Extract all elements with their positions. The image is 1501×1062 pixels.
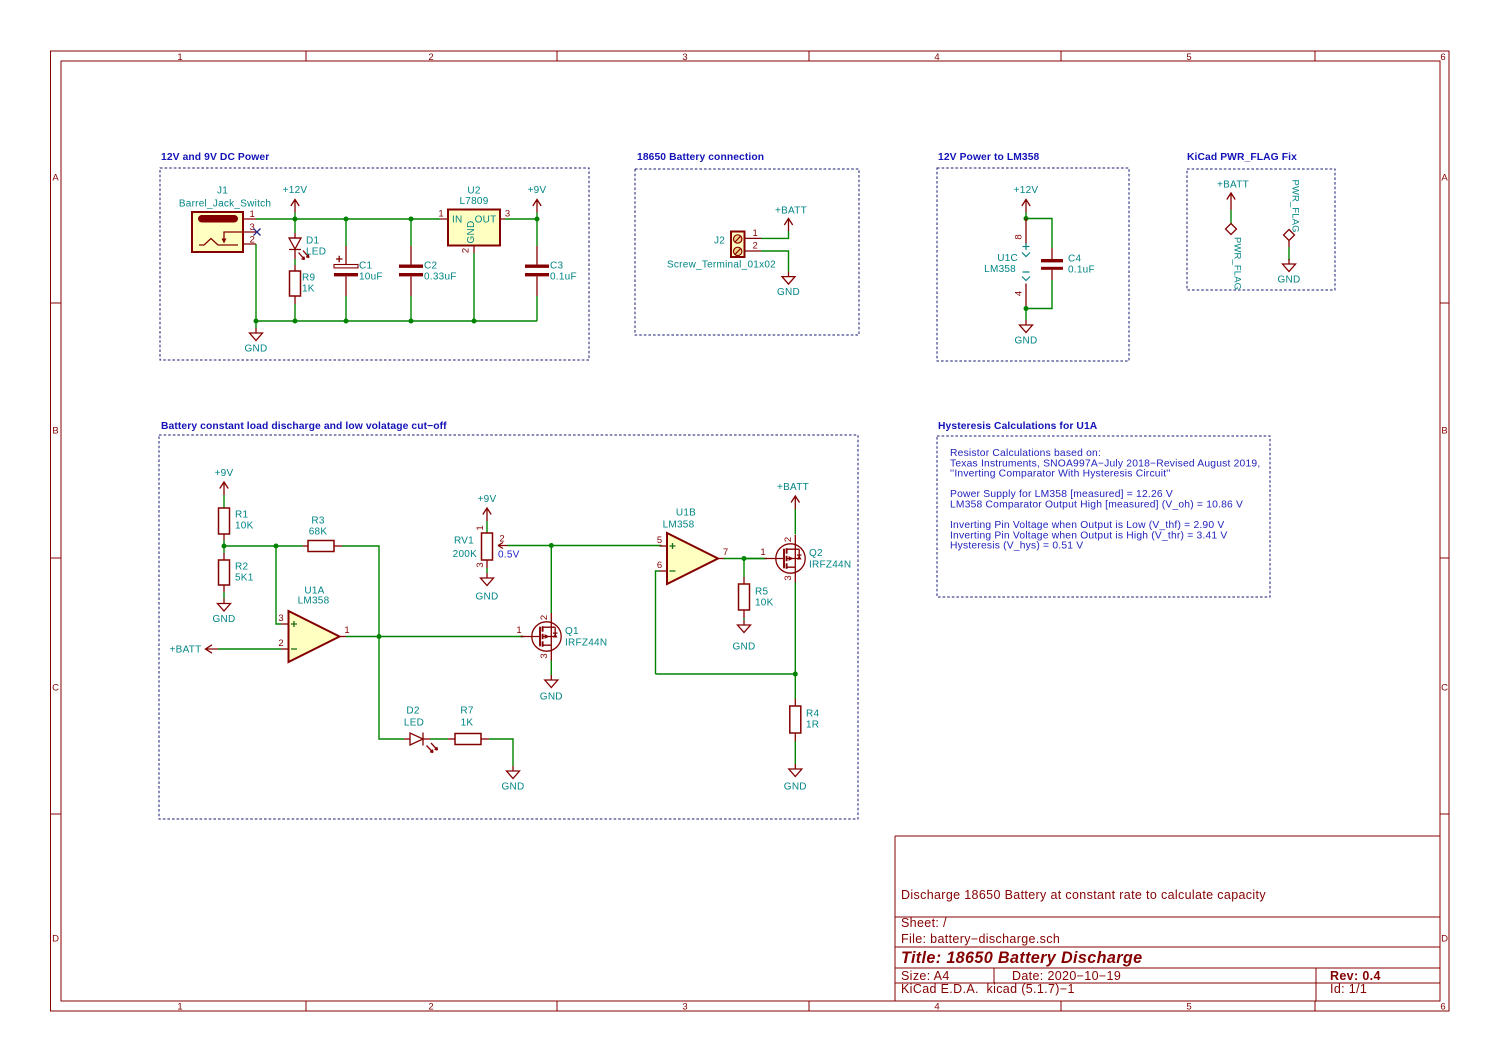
notes text block [950, 448, 1260, 552]
svg-text:KiCad PWR_FLAG Fix: KiCad PWR_FLAG Fix [1187, 152, 1297, 163]
svg-text:GND: GND [733, 642, 756, 653]
svg-text:IRFZ44N: IRFZ44N [809, 560, 851, 571]
svg-text:D: D [1441, 934, 1448, 945]
svg-text:4: 4 [934, 1002, 939, 1013]
SECTION hysteresis [937, 421, 1270, 597]
section dashed box [937, 436, 1270, 597]
svg-text:LED: LED [404, 718, 424, 729]
svg-text:4: 4 [934, 52, 939, 63]
svg-text:6: 6 [1440, 52, 1445, 63]
svg-text:B: B [52, 426, 58, 437]
svg-text:LM358 Comparator Output High [: LM358 Comparator Output High [measured] … [950, 500, 1243, 511]
svg-text:3: 3 [682, 52, 687, 63]
svg-text:PWR_FLAG: PWR_FLAG [1233, 237, 1244, 290]
svg-text:+BATT: +BATT [775, 206, 807, 217]
svg-text:0.1uF: 0.1uF [550, 272, 577, 283]
svg-text:+BATT: +BATT [1217, 180, 1249, 191]
svg-text:1: 1 [760, 547, 765, 558]
svg-text:PWR_FLAG: PWR_FLAG [1291, 180, 1302, 233]
junction [742, 556, 747, 561]
svg-text:Rev: 0.4: Rev: 0.4 [1330, 969, 1381, 983]
svg-text:6: 6 [657, 560, 662, 571]
wire R7 to GND [489, 739, 513, 760]
svg-text:GND: GND [777, 287, 800, 298]
svg-text:L7809: L7809 [459, 196, 488, 207]
svg-text:U2: U2 [467, 186, 480, 197]
power symbol +12V [283, 185, 308, 219]
section dashed box [159, 435, 858, 819]
svg-text:5: 5 [1186, 1002, 1191, 1013]
svg-text:2: 2 [428, 1002, 433, 1013]
svg-text:1: 1 [753, 228, 758, 239]
op-amp U1A LM358 [278, 586, 349, 663]
svg-text:GND: GND [476, 592, 499, 603]
column numbers [177, 52, 1445, 1013]
power symbol +BATT at Q2 [777, 482, 809, 509]
svg-text:3: 3 [250, 222, 255, 233]
resistor R3 [303, 516, 342, 552]
wire U2 out to +9V [505, 218, 537, 220]
junction [344, 319, 349, 324]
svg-text:A: A [52, 173, 59, 184]
ground [502, 760, 525, 793]
wire wiper down to Q1 drain [550, 546, 552, 614]
svg-text:R2: R2 [235, 562, 248, 573]
ground [777, 271, 800, 298]
wire J1 pin2 down [255, 244, 257, 321]
power symbol +BATT [775, 206, 807, 232]
svg-text:1: 1 [177, 52, 182, 63]
wire J2 pin1 to +BATT [761, 231, 789, 238]
section dashed box [1187, 169, 1335, 290]
svg-text:1: 1 [475, 525, 486, 530]
svg-text:2: 2 [753, 241, 758, 252]
wire to C4 top [1026, 219, 1052, 249]
svg-text:+BATT: +BATT [170, 645, 202, 656]
ground [784, 741, 807, 793]
ground [733, 618, 756, 653]
capacitor C2 [399, 219, 457, 321]
svg-text:Screw_Terminal_01x02: Screw_Terminal_01x02 [667, 260, 776, 271]
svg-text:GND: GND [245, 344, 268, 355]
ground [245, 321, 268, 355]
capacitor C3 [525, 219, 577, 321]
svg-text:4: 4 [1014, 291, 1025, 296]
wire D2 to R7 [423, 738, 448, 740]
svg-text:0.33uF: 0.33uF [424, 272, 457, 283]
svg-text:U1C: U1C [997, 253, 1018, 264]
regulator U2 L7809 [438, 186, 510, 322]
ground [476, 568, 499, 603]
power symbol +12V [1014, 185, 1039, 219]
svg-text:LED: LED [306, 247, 326, 258]
svg-text:KiCad E.D.A. kicad (5.1.7)−1: KiCad E.D.A. kicad (5.1.7)−1 [901, 982, 1075, 996]
junction [793, 672, 798, 677]
junction [293, 217, 298, 222]
junction [274, 544, 279, 549]
svg-text:Title: 18650 Battery Discharge: Title: 18650 Battery Discharge [901, 949, 1142, 967]
svg-text:1: 1 [177, 1002, 182, 1013]
wire pin3 net [276, 546, 281, 624]
wire J2 pin2 to GND [761, 251, 789, 271]
power flag PWR_FLAG on +BATT [1226, 224, 1244, 291]
svg-text:0.1uF: 0.1uF [1068, 265, 1095, 276]
SECTION discharge [159, 421, 858, 819]
svg-text:Id: 1/1: Id: 1/1 [1330, 982, 1367, 996]
svg-text:GND: GND [1278, 275, 1301, 286]
svg-text:R7: R7 [460, 706, 473, 717]
svg-text:Barrel_Jack_Switch: Barrel_Jack_Switch [179, 199, 271, 210]
resistor R9 [290, 259, 316, 321]
junction [344, 217, 349, 222]
svg-text:LM358: LM358 [298, 596, 330, 607]
svg-text:12V Power to LM358: 12V Power to LM358 [938, 152, 1040, 163]
svg-text:Hysteresis (V_hys) = 0.51 V: Hysteresis (V_hys) = 0.51 V [950, 541, 1083, 552]
svg-text:B: B [1441, 426, 1447, 437]
junction [409, 217, 414, 222]
wire +BATT to Q2 drain [794, 509, 796, 535]
svg-text:R5: R5 [755, 587, 768, 598]
wire ground rail [256, 320, 537, 322]
resistor R1 [219, 508, 254, 546]
svg-text:OUT: OUT [475, 215, 497, 226]
svg-text:7: 7 [723, 547, 728, 558]
junction [254, 319, 259, 324]
wire pin6 feedback [656, 571, 660, 674]
svg-text:5: 5 [1186, 52, 1191, 63]
wire +BATT to flag [1230, 210, 1232, 224]
ground [1015, 309, 1038, 347]
svg-text:10K: 10K [755, 598, 774, 609]
svg-text:+9V: +9V [215, 468, 234, 479]
section dashed box [635, 169, 859, 335]
svg-text:200K: 200K [453, 549, 477, 560]
svg-text:Hysteresis Calculations for U1: Hysteresis Calculations for U1A [938, 421, 1098, 432]
svg-text:U1B: U1B [676, 508, 696, 519]
svg-text:J2: J2 [714, 236, 725, 247]
svg-text:C1: C1 [359, 261, 372, 272]
section dashed box [160, 168, 589, 360]
svg-text:2: 2 [783, 537, 794, 542]
svg-text:+12V: +12V [1014, 185, 1039, 196]
power symbol +9V [215, 468, 234, 508]
svg-text:C2: C2 [424, 261, 437, 272]
svg-text:0.5V: 0.5V [498, 550, 520, 561]
svg-text:3: 3 [539, 653, 550, 658]
svg-text:GND: GND [502, 782, 525, 793]
wire C4 bottom [1026, 280, 1052, 309]
junction [472, 319, 477, 324]
op-amp U1C LM358 power unit [984, 219, 1030, 309]
svg-text:1: 1 [516, 625, 521, 636]
wire divider to R3 [224, 545, 303, 547]
svg-text:R9: R9 [302, 273, 315, 284]
svg-text:Battery constant load discharg: Battery constant load discharge and low … [161, 421, 447, 432]
svg-text:C3: C3 [550, 261, 563, 272]
power symbol +BATT left arrow [170, 645, 218, 656]
svg-text:8: 8 [1014, 234, 1025, 239]
svg-text:''Inverting Comparator With Hy: ''Inverting Comparator With Hysteresis C… [950, 469, 1171, 480]
junction [535, 217, 540, 222]
power symbol +BATT [1217, 180, 1249, 211]
junction [1024, 306, 1029, 311]
svg-text:D2: D2 [406, 706, 419, 717]
ground [540, 661, 563, 703]
junction [549, 543, 554, 548]
global +BATT to pin2 [218, 648, 281, 650]
svg-text:Q2: Q2 [809, 548, 823, 559]
SECTION battery [635, 152, 859, 335]
capacitor C4 [1041, 248, 1095, 280]
svg-text:RV1: RV1 [454, 536, 474, 547]
svg-text:+9V: +9V [478, 494, 497, 505]
connector J1 Barrel_Jack_Switch [179, 186, 271, 253]
svg-text:Size: A4: Size: A4 [901, 969, 950, 983]
svg-text:1: 1 [344, 625, 349, 636]
junction [377, 634, 382, 639]
svg-text:+12V: +12V [283, 185, 308, 196]
svg-text:1: 1 [250, 209, 255, 220]
svg-text:3: 3 [278, 613, 283, 624]
svg-text:6: 6 [1440, 1002, 1445, 1013]
svg-text:GND: GND [784, 782, 807, 793]
junction [222, 544, 227, 549]
svg-text:3: 3 [783, 575, 794, 580]
svg-text:A: A [1441, 173, 1448, 184]
svg-text:LM358: LM358 [663, 520, 695, 531]
wire feedback horizontal [656, 673, 796, 675]
svg-text:1K: 1K [302, 284, 315, 295]
SECTION power [160, 152, 589, 360]
svg-text:5K1: 5K1 [235, 573, 254, 584]
junction [293, 319, 298, 324]
transistor Q1 IRFZ44N [516, 613, 607, 661]
svg-text:1: 1 [438, 209, 443, 220]
ground [1278, 259, 1301, 286]
svg-text:68K: 68K [309, 527, 328, 538]
SECTION lm358power [937, 152, 1129, 361]
wire R3 to output node [342, 546, 379, 637]
wire Q2 source down [794, 583, 796, 700]
svg-text:18650 Battery connection: 18650 Battery connection [637, 152, 764, 163]
title block frame [895, 836, 1440, 1001]
power flag PWR_FLAG on GND [1284, 180, 1302, 248]
section dashed box [937, 168, 1129, 361]
svg-text:2: 2 [250, 235, 255, 246]
svg-text:2: 2 [461, 248, 472, 253]
svg-text:1K: 1K [461, 718, 474, 729]
svg-text:2: 2 [499, 534, 504, 545]
svg-text:D1: D1 [306, 236, 319, 247]
junction [1024, 216, 1029, 221]
svg-text:R1: R1 [235, 510, 248, 521]
svg-text:+BATT: +BATT [777, 482, 809, 493]
wire output down to LED branch [379, 637, 404, 740]
svg-text:IN: IN [452, 215, 463, 226]
connector J2 Screw_Terminal_01x02 [667, 228, 776, 271]
svg-text:3: 3 [505, 209, 510, 220]
svg-text:R3: R3 [311, 516, 324, 527]
power symbol +9V [528, 185, 547, 219]
svg-text:12V and 9V DC Power: 12V and 9V DC Power [161, 152, 269, 163]
svg-text:C: C [52, 683, 59, 694]
SECTION pwrflag [1187, 152, 1335, 290]
resistor R4 [790, 699, 820, 741]
svg-text:Date: 2020−10−19: Date: 2020−10−19 [1012, 969, 1121, 983]
resistor R5 [739, 559, 774, 619]
wire U1A out [346, 636, 524, 638]
svg-text:C4: C4 [1068, 254, 1081, 265]
svg-text:J1: J1 [217, 186, 228, 197]
svg-text:3: 3 [475, 562, 486, 567]
svg-text:+9V: +9V [528, 185, 547, 196]
LED D2 [404, 706, 438, 753]
resistor R7 [448, 706, 489, 745]
svg-text:Discharge 18650 Battery at con: Discharge 18650 Battery at constant rate… [901, 888, 1266, 902]
op-amp U1B LM358 [657, 508, 728, 585]
svg-text:10K: 10K [235, 521, 254, 532]
no-connect X on J1 pin 3 [254, 229, 261, 236]
capacitor C1 [334, 219, 383, 321]
svg-text:2: 2 [428, 52, 433, 63]
TITLE BLOCK [895, 836, 1440, 1001]
svg-text:3: 3 [682, 1002, 687, 1013]
svg-text:LM358: LM358 [984, 264, 1016, 275]
wire RV1 wiper net [507, 545, 662, 547]
row letters [52, 173, 1448, 945]
LED D1 [289, 219, 326, 260]
potentiometer RV1 [453, 525, 507, 568]
svg-text:GND: GND [1015, 336, 1038, 347]
ground [213, 592, 236, 625]
svg-text:5: 5 [657, 535, 662, 546]
svg-text:GND: GND [213, 614, 236, 625]
wire flag to GND [1288, 247, 1290, 260]
transistor Q2 IRFZ44N [744, 535, 851, 583]
svg-text:Q1: Q1 [565, 626, 579, 637]
wire U1B out [724, 558, 768, 560]
junction [409, 319, 414, 324]
svg-text:2: 2 [539, 615, 550, 620]
svg-text:GND: GND [540, 692, 563, 703]
svg-text:GND: GND [466, 221, 477, 244]
svg-text:1R: 1R [806, 720, 819, 731]
svg-text:D: D [52, 934, 59, 945]
svg-text:10uF: 10uF [359, 272, 383, 283]
power symbol +9V [478, 494, 497, 533]
svg-text:IRFZ44N: IRFZ44N [565, 638, 607, 649]
svg-text:R4: R4 [806, 709, 819, 720]
wire +12V rail [256, 218, 440, 220]
resistor R2 [219, 546, 254, 592]
svg-text:Sheet: /: Sheet: / [901, 916, 947, 930]
svg-text:File: battery−discharge.sch: File: battery−discharge.sch [901, 932, 1060, 946]
svg-text:C: C [1441, 683, 1448, 694]
svg-text:2: 2 [278, 638, 283, 649]
